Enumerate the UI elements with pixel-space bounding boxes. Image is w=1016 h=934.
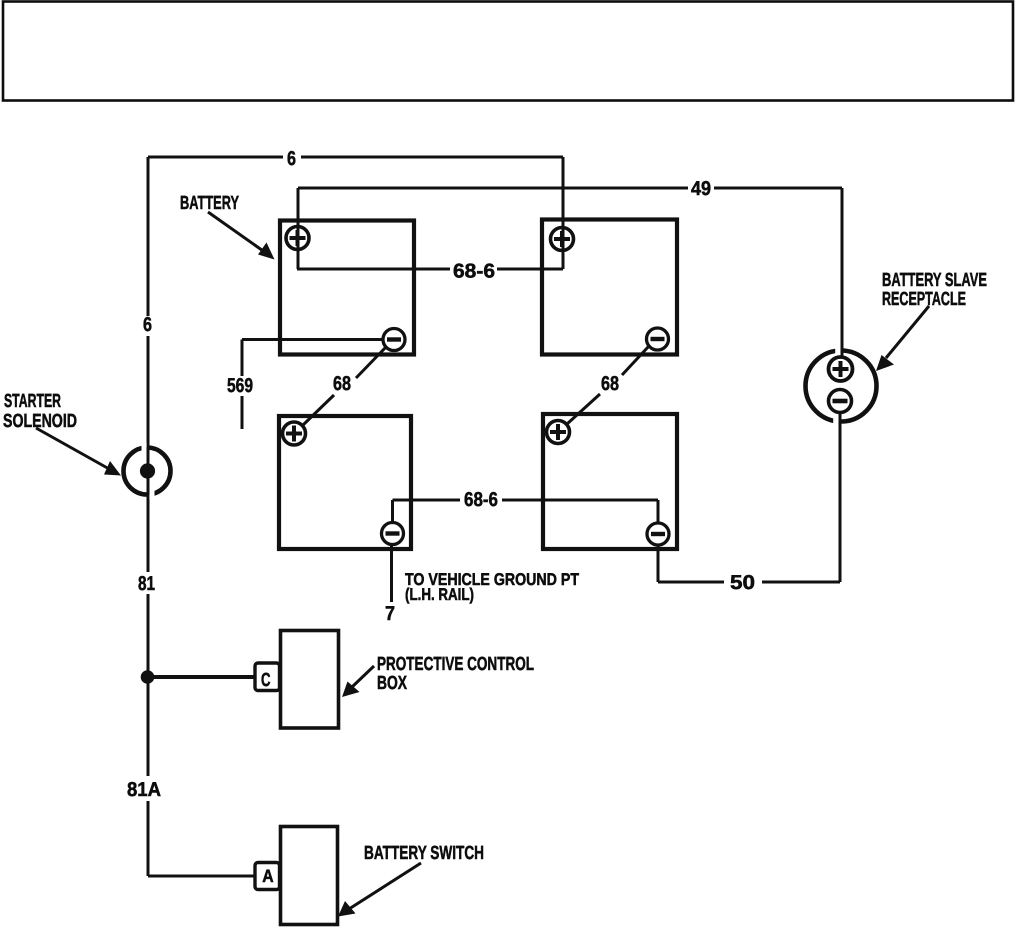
svg-text:STARTER: STARTER [4,391,61,412]
connector C box [255,663,280,691]
wire 6 horizontal top [148,156,563,159]
wire 68 diagonal (battery1- to battery3+) [303,347,386,425]
battery B3 box [279,416,411,549]
battery B2 plus terminal [551,228,574,251]
svg-text:A: A [262,866,273,886]
wire junction to C connector [148,675,255,679]
svg-text:68: 68 [333,373,351,395]
svg-text:RECEPTACLE: RECEPTACLE [882,289,966,310]
wire 49 [298,188,842,381]
wire 7 to vehicle ground [390,545,393,602]
svg-text:81A: 81A [127,779,161,801]
svg-text:(L.H. RAIL): (L.H. RAIL) [405,585,474,604]
svg-text:6: 6 [143,314,152,336]
battery B1 box [280,221,414,355]
svg-text:68-6: 68-6 [464,489,498,511]
wire 68 diagonal (battery2- to battery4+) [567,346,649,424]
arrow BATTERY SWITCH [338,863,421,917]
wire 569 [242,340,383,430]
svg-text:68: 68 [601,373,619,395]
battery slave receptacle [806,188,877,430]
wire 6 right vertical to battery 2 plus [562,157,565,269]
wire 50 [658,413,840,582]
svg-text:81: 81 [138,573,155,595]
svg-text:BATTERY SLAVE: BATTERY SLAVE [882,270,987,291]
svg-text:7: 7 [385,603,395,625]
wire 68-6 (upper bus battery1+ to battery2+) [297,268,563,271]
arrow BATTERY SLAVE RECEPTACLE [876,306,929,371]
battery switch box [281,827,338,925]
battery B4 box [543,414,677,549]
battery B2 minus terminal [647,328,669,350]
junction dot [141,670,155,684]
connector A box [255,863,280,890]
wire 6 left vertical (to starter solenoid and below) [147,157,150,876]
arrow BATTERY [208,212,275,260]
svg-text:BOX: BOX [377,673,407,694]
battery B1 minus terminal [383,329,405,351]
svg-text:BATTERY SWITCH: BATTERY SWITCH [364,843,484,864]
title frame box (empty) [3,2,1013,101]
battery B2 box [542,220,677,355]
battery B4 plus terminal [547,421,570,444]
svg-text:68-6: 68-6 [453,261,495,283]
svg-text:50: 50 [730,572,755,594]
battery B1 plus terminal [286,227,309,250]
svg-text:6: 6 [287,148,296,170]
starter solenoid [124,443,171,500]
arrow STARTER SOLENOID [36,428,121,476]
svg-text:569: 569 [227,375,253,397]
svg-text:BATTERY: BATTERY [180,193,239,214]
svg-text:C: C [261,670,271,691]
battery B3 minus terminal [382,523,404,545]
wire 68-6 (lower bus battery3- to battery4-) [393,500,659,523]
battery B3 plus terminal [283,422,306,445]
battery B4 minus terminal [647,523,669,545]
arrow PROTECTIVE CONTROL BOX [342,666,374,697]
svg-text:PROTECTIVE CONTROL: PROTECTIVE CONTROL [377,654,534,675]
wire to A connector [148,875,255,878]
protective control box [281,631,339,729]
svg-text:49: 49 [691,178,711,200]
